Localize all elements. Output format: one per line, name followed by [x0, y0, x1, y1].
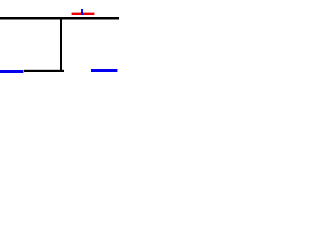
blue highlight wire segment left [0, 70, 23, 73]
red highlight segment above top rail [72, 13, 95, 15]
blue node marker tick [81, 9, 83, 15]
blue highlight wire segment right [91, 69, 117, 72]
wire vertical branch [60, 17, 62, 72]
wire bottom rail segment [24, 70, 64, 72]
wire top rail [0, 17, 119, 20]
